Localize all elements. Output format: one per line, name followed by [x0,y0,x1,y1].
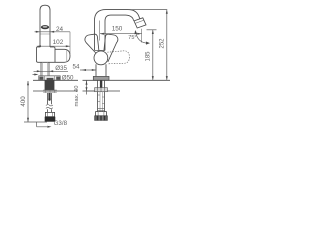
right view: spout outer curve [95,10,141,45]
right view: base flange [93,76,109,80]
dimension Ø35 right arrow [49,70,53,72]
right view: lever dashed position [107,51,129,65]
right view: joint lines [98,109,105,111]
left view: flange center lines [45,76,55,81]
dimension 24 line [35,31,71,33]
dimension 185 top arrow [152,30,154,34]
dimension 54 ref line [80,69,96,71]
dimension 102 right arrow [66,45,70,47]
dimension 54 left arrow [82,69,86,71]
left view: shank below deck [45,80,55,90]
right view: shank tube below deck [98,80,105,111]
extension line center [99,21,101,41]
dimension 252 ref line top [129,9,167,11]
left view: base flange [39,76,61,80]
left view: shank nut band [43,90,57,93]
right view: lever petal right [104,34,118,62]
dimension 400 vertical line [27,81,29,122]
left view: connector body [45,112,54,116]
dimension 185 bottom arrow [152,76,154,80]
svg-text:252: 252 [160,38,166,49]
right view: lower connector [96,112,107,116]
dimension 150 line [100,33,142,35]
dimension 252 top arrow [166,10,168,14]
right view: lever petal left [85,34,99,53]
left view: pipe break squiggle [46,104,53,108]
dimension Ø35 line [34,70,69,72]
counter deck right view top line [83,79,171,81]
right view: rod center lines [100,92,102,112]
svg-text:G3/8: G3/8 [54,120,68,127]
dimension 24 left arrow [36,31,40,33]
dimension 252 vertical line [166,10,168,81]
dimension Ø35 left arrow [37,70,41,72]
left view: column under body [41,62,49,75]
svg-text:102: 102 [53,39,64,46]
svg-text:150: 150 [112,25,123,32]
svg-text:max. 40: max. 40 [74,85,80,107]
dimension 150 left arrow [100,33,104,35]
dimension max40 bottom arrow [86,87,88,91]
dimension Ø50 arrow [33,74,36,76]
extension line aerator [141,29,143,43]
right view: pivot circle [94,51,108,65]
75 degree arc with arrows [136,32,149,44]
left view: flange dark right end [56,77,60,80]
extension line x70 [69,32,71,54]
G3/8 leader arrow [37,122,47,127]
right view: threaded rod dark center [100,80,102,87]
dimension max40 top arrow [86,81,88,85]
dimension max40 vertical line [87,80,96,94]
counter deck right view bottom line [83,90,121,92]
dimension 400 bottom arrow [27,118,29,122]
right view: lower dark nut [95,116,108,121]
right view: thread ticks [98,95,105,104]
right view: aerator block [134,18,146,28]
dimension 102 line [37,45,70,47]
svg-text:75°: 75° [128,35,136,41]
right view: body column [96,64,106,76]
left view: lever handle capsule [40,5,50,33]
dimension 54 right arrow [92,69,96,71]
dimension 252 bottom arrow [166,76,168,80]
svg-text:185: 185 [145,51,151,62]
left view: spout stub side [50,47,70,62]
svg-text:400: 400 [20,96,27,107]
left view: supply pipe upper [48,93,52,104]
dimension 24 right arrow [50,31,54,33]
counter deck left view bottom line [33,90,78,92]
left view: body rectangle [37,47,55,62]
left view: G3/8 dark nut [45,117,56,122]
dimension 400 ref line bottom [24,121,47,123]
right view: spout inner curve [105,15,134,42]
left view: supply pipe lower [48,109,52,112]
right view: mounting nut [95,88,108,92]
dimension 185 ref line top [147,29,157,31]
left view: neck below handle [40,34,50,48]
dimension 150 right arrow [137,33,141,35]
left view: handle dark band [41,25,49,29]
dimension 185 vertical line [152,30,154,81]
right view: riser tube [95,42,106,50]
left view: flange dark left end [39,77,43,80]
svg-text:Ø35: Ø35 [55,65,67,72]
right view: cartridge cap line [95,49,106,51]
svg-text:24: 24 [56,26,64,33]
dimension 400 top arrow [27,81,29,85]
dimension 102 left arrow [37,45,41,47]
counter deck left view top line [33,79,78,81]
svg-text:54: 54 [73,64,80,71]
